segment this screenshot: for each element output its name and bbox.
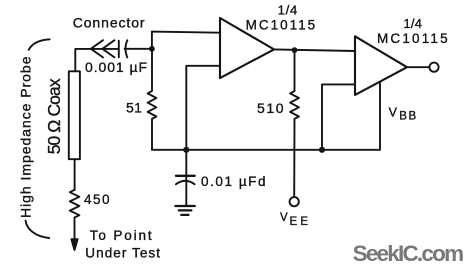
svg-text:450: 450 bbox=[84, 192, 110, 207]
wire VBB bus bbox=[152, 149, 380, 151]
svg-text:MC10115: MC10115 bbox=[377, 31, 448, 46]
node B junction dot bbox=[183, 147, 189, 153]
op-amp U1a triangle bbox=[220, 18, 274, 78]
svg-text:50 Ω Coax: 50 Ω Coax bbox=[44, 78, 64, 154]
resistor R2 510 bbox=[290, 50, 299, 197]
svg-text:BB: BB bbox=[399, 110, 416, 122]
wire node A to gate1 top input bbox=[152, 32, 220, 49]
svg-text:Connector: Connector bbox=[73, 14, 145, 30]
svg-text:510: 510 bbox=[257, 100, 284, 116]
svg-text:0.001 µF: 0.001 µF bbox=[85, 59, 147, 75]
wire VBB pin bbox=[379, 82, 381, 150]
op-amp U1b triangle bbox=[355, 36, 407, 95]
wire gate1 output to gate2 top input bbox=[274, 49, 355, 51]
svg-text:V: V bbox=[280, 212, 288, 224]
svg-text:Under Test: Under Test bbox=[85, 246, 160, 261]
svg-text:To Point: To Point bbox=[90, 228, 152, 243]
svg-text:V: V bbox=[389, 106, 398, 120]
capacitor C2 0.01 uFd bbox=[185, 150, 187, 182]
svg-text:High Impedance Probe: High Impedance Probe bbox=[17, 56, 33, 218]
node D junction dot bbox=[319, 147, 325, 153]
svg-text:0.01 µFd: 0.01 µFd bbox=[201, 174, 266, 189]
wire feedback gate2 bottom input bbox=[322, 84, 355, 149]
svg-text:MC10115: MC10115 bbox=[246, 18, 316, 33]
svg-text:1/4: 1/4 bbox=[278, 2, 298, 17]
coax 50 ohm bbox=[69, 71, 80, 159]
svg-text:51: 51 bbox=[126, 100, 142, 116]
wire gate2 output bbox=[407, 66, 429, 68]
node A junction dot bbox=[149, 46, 155, 52]
wire input corner to connector bbox=[75, 49, 119, 71]
resistor R1 51 bbox=[148, 49, 157, 150]
svg-text:1/4: 1/4 bbox=[403, 16, 422, 31]
terminal VEE circle bbox=[290, 197, 299, 206]
wire capacitor to node A bbox=[125, 48, 152, 50]
svg-text:SeekIC.com: SeekIC.com bbox=[353, 241, 465, 266]
brace (high impedance probe span) bbox=[29, 39, 50, 50]
terminal output circle bbox=[429, 63, 438, 72]
wire feedback gate1 bottom input bbox=[186, 66, 220, 150]
resistor R3 450 bbox=[70, 190, 80, 241]
node C junction dot bbox=[292, 47, 298, 53]
svg-text:EE: EE bbox=[290, 216, 309, 228]
ground bbox=[175, 205, 194, 207]
arrow to point under test bbox=[71, 239, 77, 250]
capacitor C1 0.001 uF bbox=[118, 41, 120, 58]
connector bbox=[91, 40, 103, 57]
wire coax to R3 bbox=[74, 159, 76, 190]
